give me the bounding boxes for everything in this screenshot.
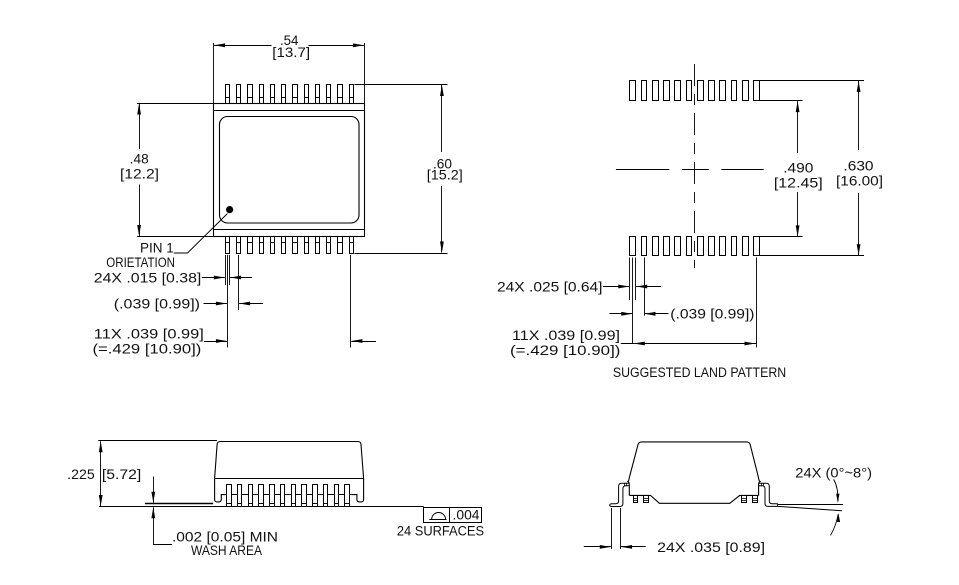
view 4: right gull-wing lead <box>759 483 778 506</box>
angle reference line (horizontal) <box>777 504 843 506</box>
svg-text:[15.2]: [15.2] <box>427 168 463 183</box>
svg-text:24X .015 [0.38]: 24X .015 [0.38] <box>94 270 202 285</box>
svg-text:[5.72]: [5.72] <box>102 467 141 482</box>
svg-text:.004: .004 <box>453 507 480 522</box>
pin 1 orientation dot <box>226 206 233 213</box>
svg-text:[13.7]: [13.7] <box>272 45 310 60</box>
view 1: top pin row (12 pins) <box>225 85 353 104</box>
svg-text:11X .039 [0.99]: 11X .039 [0.99] <box>94 327 204 342</box>
svg-text:24 SURFACES: 24 SURFACES <box>397 523 484 538</box>
view 4: package end view body <box>628 442 760 503</box>
svg-text:ORIETATION: ORIETATION <box>106 255 175 270</box>
svg-text:[16.00]: [16.00] <box>836 174 883 189</box>
svg-text:(=.429 [10.90]): (=.429 [10.90]) <box>510 343 620 358</box>
svg-text:24X .035 [0.89]: 24X .035 [0.89] <box>657 540 765 555</box>
flatness feature control frame .004 <box>424 507 482 523</box>
dimension .630 [16.00] outer pad span <box>759 81 883 256</box>
dimension .54 [13.7] horizontal overall width <box>214 33 365 103</box>
view 2: land pattern bottom pad row (12 pads) <box>630 237 760 256</box>
dimension 11X .039 (=.429) pad row span <box>510 258 757 358</box>
dimension .225 [5.72] package height <box>67 441 217 507</box>
svg-text:.48: .48 <box>130 152 149 167</box>
dimension 24X .035 [0.89] foot length <box>584 508 765 555</box>
wash area line <box>145 503 213 505</box>
view 2: land pattern top pad row (12 pads) <box>630 81 760 101</box>
dimension (.039 [0.99]) pad pitch <box>610 258 755 344</box>
view 4: small stand-off pins on bottom <box>633 496 757 503</box>
svg-text:.630: .630 <box>843 159 873 174</box>
view 1: bottom pin row (12 pins) <box>225 237 353 254</box>
svg-text:24X (0°~8°): 24X (0°~8°) <box>795 465 872 480</box>
view 1: package top view - body outline <box>214 104 365 237</box>
dimension 11X .039 (=.429) pin row span <box>93 255 377 357</box>
vertical centerline <box>694 64 696 268</box>
svg-text:WASH AREA: WASH AREA <box>191 543 262 558</box>
seating plane line <box>99 506 424 508</box>
dimension .48 [12.2] body height <box>120 104 214 237</box>
svg-text:.490: .490 <box>783 160 813 175</box>
dimension 24X .025 [0.64] pad width <box>497 258 661 301</box>
svg-text:(.039 [0.99]): (.039 [0.99]) <box>670 306 754 321</box>
horizontal centerline <box>616 169 764 171</box>
view 3: lead row (12 gull-wing pins seen from side) <box>227 485 357 507</box>
angle sloped line 8 deg <box>778 506 842 510</box>
view 4: lead crimp ticks right <box>761 483 763 486</box>
svg-text:11X .039 [0.99]: 11X .039 [0.99] <box>512 328 620 343</box>
svg-text:24X .025 [0.64]: 24X .025 [0.64] <box>497 279 603 294</box>
svg-text:PIN 1: PIN 1 <box>140 241 174 256</box>
dimension .490 [12.45] inner pad span <box>759 101 823 237</box>
dimension .60 [15.2] overall height incl pins <box>355 85 463 254</box>
svg-text:[12.45]: [12.45] <box>774 175 823 190</box>
svg-text:(=.429 [10.90]): (=.429 [10.90]) <box>93 342 202 357</box>
view 3: package side view body <box>215 442 364 502</box>
dimension (.039 [0.99]) pin pitch <box>114 255 263 348</box>
view 4: lead crimp ticks left <box>624 483 626 486</box>
svg-text:SUGGESTED LAND PATTERN: SUGGESTED LAND PATTERN <box>613 365 786 380</box>
dimension .002 [0.05] MIN wash area gap <box>151 477 278 558</box>
svg-text:.225: .225 <box>67 467 95 482</box>
pin 1 leader line <box>174 214 228 254</box>
svg-text:[12.2]: [12.2] <box>120 167 159 182</box>
view 4: left gull-wing lead <box>610 483 630 506</box>
dimension 24X (0-8 deg) lead angle <box>795 465 872 535</box>
svg-text:(.039 [0.99]): (.039 [0.99]) <box>114 297 200 312</box>
dimension 24X .015 [0.38] pin width <box>94 255 252 285</box>
